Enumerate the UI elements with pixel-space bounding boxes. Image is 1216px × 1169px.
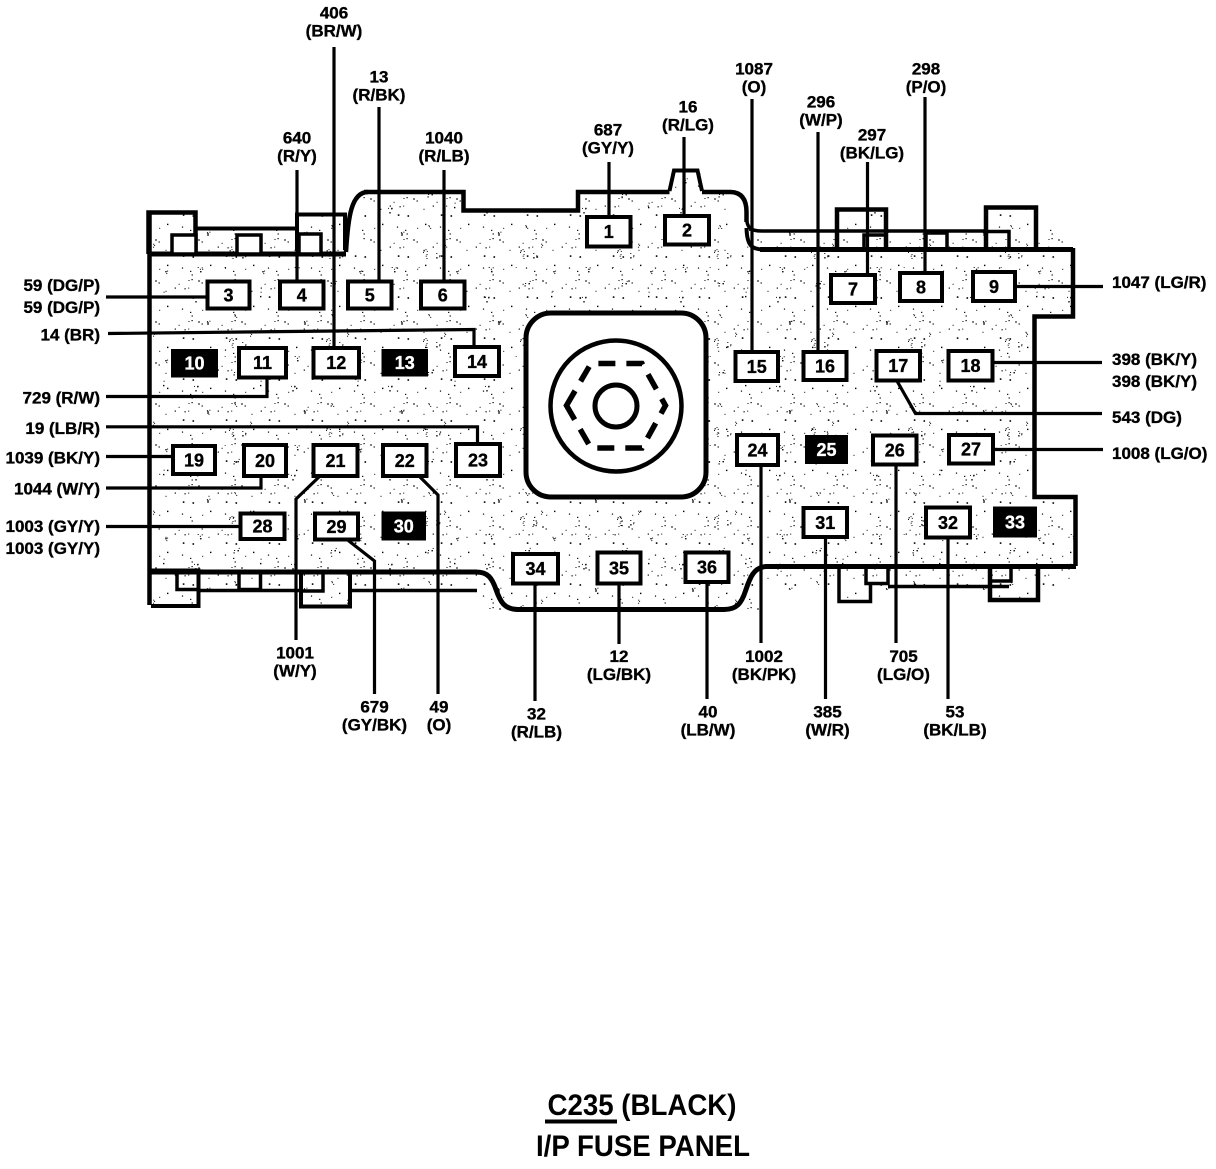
svg-text:16: 16 bbox=[815, 356, 835, 376]
svg-text:1044 (W/Y): 1044 (W/Y) bbox=[14, 480, 100, 499]
svg-text:1040: 1040 bbox=[425, 129, 463, 148]
svg-text:(LB/W): (LB/W) bbox=[681, 721, 736, 740]
svg-text:(O): (O) bbox=[427, 716, 452, 735]
svg-text:32: 32 bbox=[527, 705, 546, 724]
svg-text:640: 640 bbox=[283, 129, 311, 148]
svg-text:36: 36 bbox=[697, 558, 717, 578]
svg-text:27: 27 bbox=[961, 440, 981, 460]
svg-text:1008 (LG/O): 1008 (LG/O) bbox=[1112, 444, 1207, 463]
svg-text:(W/Y): (W/Y) bbox=[273, 662, 316, 681]
svg-text:(GY/BK): (GY/BK) bbox=[342, 716, 407, 735]
svg-text:(R/BK): (R/BK) bbox=[353, 86, 406, 105]
svg-text:2: 2 bbox=[682, 221, 692, 241]
svg-text:14 (BR): 14 (BR) bbox=[40, 326, 100, 345]
svg-text:29: 29 bbox=[326, 517, 346, 537]
svg-text:17: 17 bbox=[888, 356, 908, 376]
svg-text:12: 12 bbox=[326, 353, 346, 373]
svg-text:296: 296 bbox=[807, 93, 835, 112]
svg-text:18: 18 bbox=[960, 356, 980, 376]
svg-text:(W/R): (W/R) bbox=[805, 721, 849, 740]
svg-text:12: 12 bbox=[610, 647, 629, 666]
svg-text:40: 40 bbox=[699, 703, 718, 722]
svg-text:297: 297 bbox=[858, 126, 886, 145]
svg-text:35: 35 bbox=[609, 558, 629, 578]
svg-text:30: 30 bbox=[394, 516, 414, 536]
svg-text:1001: 1001 bbox=[276, 644, 314, 663]
svg-text:22: 22 bbox=[395, 451, 415, 471]
svg-text:1039 (BK/Y): 1039 (BK/Y) bbox=[6, 449, 100, 468]
svg-text:(GY/Y): (GY/Y) bbox=[582, 139, 634, 158]
svg-text:C235 (BLACK): C235 (BLACK) bbox=[548, 1089, 737, 1122]
svg-text:13: 13 bbox=[395, 353, 415, 373]
svg-text:406: 406 bbox=[320, 4, 348, 23]
svg-text:59 (DG/P): 59 (DG/P) bbox=[23, 276, 100, 295]
svg-text:10: 10 bbox=[184, 354, 204, 374]
svg-text:298: 298 bbox=[912, 60, 940, 79]
svg-text:(P/O): (P/O) bbox=[906, 78, 947, 97]
svg-text:24: 24 bbox=[747, 440, 767, 460]
svg-text:19 (LB/R): 19 (LB/R) bbox=[25, 419, 100, 438]
svg-text:23: 23 bbox=[468, 450, 488, 470]
svg-text:11: 11 bbox=[253, 353, 272, 373]
svg-text:(W/P): (W/P) bbox=[799, 111, 842, 130]
svg-text:28: 28 bbox=[252, 517, 272, 537]
svg-text:26: 26 bbox=[885, 440, 905, 460]
svg-text:6: 6 bbox=[438, 285, 448, 305]
svg-text:7: 7 bbox=[848, 279, 858, 299]
svg-text:I/P FUSE PANEL: I/P FUSE PANEL bbox=[536, 1130, 750, 1163]
svg-text:1002: 1002 bbox=[745, 647, 783, 666]
svg-text:543 (DG): 543 (DG) bbox=[1112, 408, 1182, 427]
svg-text:385: 385 bbox=[813, 703, 841, 722]
svg-text:(R/LB): (R/LB) bbox=[511, 723, 562, 742]
svg-text:(LG/BK): (LG/BK) bbox=[587, 665, 651, 684]
svg-text:705: 705 bbox=[889, 647, 917, 666]
svg-text:59 (DG/P): 59 (DG/P) bbox=[23, 298, 100, 317]
svg-text:(BR/W): (BR/W) bbox=[306, 22, 363, 41]
svg-text:32: 32 bbox=[938, 513, 958, 533]
svg-text:31: 31 bbox=[815, 513, 835, 533]
svg-text:(R/LB): (R/LB) bbox=[419, 147, 470, 166]
svg-text:5: 5 bbox=[365, 285, 375, 305]
svg-text:(LG/O): (LG/O) bbox=[877, 665, 930, 684]
svg-text:(R/Y): (R/Y) bbox=[277, 147, 317, 166]
svg-text:53: 53 bbox=[946, 703, 965, 722]
svg-text:679: 679 bbox=[360, 698, 388, 717]
svg-text:(BK/LB): (BK/LB) bbox=[923, 721, 986, 740]
svg-text:15: 15 bbox=[747, 357, 767, 377]
svg-text:1047 (LG/R): 1047 (LG/R) bbox=[1112, 273, 1206, 292]
svg-text:1087: 1087 bbox=[735, 60, 773, 79]
svg-text:1: 1 bbox=[604, 222, 614, 242]
svg-text:13: 13 bbox=[370, 68, 389, 87]
svg-text:729 (R/W): 729 (R/W) bbox=[23, 389, 100, 408]
svg-text:(O): (O) bbox=[742, 78, 767, 97]
svg-text:19: 19 bbox=[184, 450, 204, 470]
svg-text:398 (BK/Y): 398 (BK/Y) bbox=[1112, 350, 1197, 369]
svg-text:33: 33 bbox=[1005, 512, 1025, 532]
svg-text:21: 21 bbox=[325, 451, 345, 471]
svg-text:(BK/LG): (BK/LG) bbox=[840, 144, 904, 163]
svg-text:25: 25 bbox=[816, 440, 836, 460]
svg-text:687: 687 bbox=[594, 121, 622, 140]
svg-text:8: 8 bbox=[916, 277, 926, 297]
svg-text:(R/LG): (R/LG) bbox=[662, 116, 714, 135]
svg-text:398 (BK/Y): 398 (BK/Y) bbox=[1112, 372, 1197, 391]
svg-text:3: 3 bbox=[223, 285, 233, 305]
svg-text:34: 34 bbox=[525, 559, 545, 579]
svg-text:4: 4 bbox=[297, 285, 307, 305]
svg-text:20: 20 bbox=[255, 451, 275, 471]
svg-text:14: 14 bbox=[467, 352, 487, 372]
svg-text:9: 9 bbox=[989, 277, 999, 297]
svg-text:1003 (GY/Y): 1003 (GY/Y) bbox=[6, 539, 101, 558]
svg-text:49: 49 bbox=[430, 698, 449, 717]
svg-text:1003 (GY/Y): 1003 (GY/Y) bbox=[6, 517, 101, 536]
svg-text:(BK/PK): (BK/PK) bbox=[732, 665, 796, 684]
svg-text:16: 16 bbox=[679, 98, 698, 117]
